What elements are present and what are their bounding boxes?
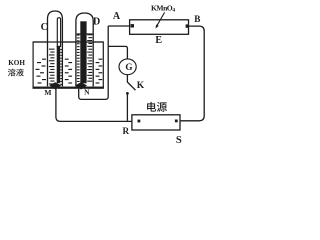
terminal plug right in E — [186, 24, 189, 27]
galvanometer G — [119, 59, 136, 75]
svg-text:N: N — [84, 88, 90, 97]
electrode terminal M (diamond) — [49, 82, 61, 89]
tube E with KMnO4 — [130, 20, 189, 35]
svg-text:C: C — [41, 22, 48, 33]
switch K contact dot — [126, 92, 129, 95]
KOH solution hatching in beaker — [36, 59, 103, 84]
gas tube D — [76, 13, 93, 86]
terminal dot right — [175, 120, 178, 123]
electrode terminal N (diamond) — [75, 82, 87, 89]
power supply box — [132, 115, 180, 130]
terminal dot left — [138, 120, 141, 123]
svg-text:E: E — [155, 35, 162, 46]
liquid in tube C — [49, 49, 62, 85]
liquid in tube D — [77, 34, 92, 82]
beaker rim waterline — [33, 41, 103, 42]
switch K blade — [127, 82, 135, 90]
gas tube C — [48, 11, 63, 86]
svg-text:KOH: KOH — [8, 59, 25, 67]
electrode rod in tube C — [57, 18, 60, 47]
wire node A to tube E left — [108, 25, 129, 27]
electrode rod in tube D — [80, 21, 86, 83]
liquid surface line in tube D — [77, 33, 93, 34]
svg-text:M: M — [44, 88, 51, 97]
branch wire to galvanometer G — [108, 46, 127, 58]
wire from M to bottom rail — [56, 89, 132, 122]
beaker bottom — [33, 87, 104, 89]
label 电源 (power supply) — [147, 102, 167, 112]
wire switch to bottom rail — [126, 95, 128, 121]
svg-text:B: B — [194, 14, 200, 24]
svg-text:D: D — [93, 17, 100, 28]
svg-text:KMnO4: KMnO4 — [151, 3, 175, 13]
wire G to switch — [126, 75, 128, 83]
pointer arrow from KMnO4 label to tube — [157, 12, 164, 25]
svg-text:K: K — [137, 81, 145, 91]
beaker vessel — [33, 42, 103, 87]
svg-text:A: A — [113, 11, 121, 22]
svg-text:R: R — [122, 126, 129, 136]
svg-text:S: S — [176, 135, 182, 146]
label 溶液 (solution) — [8, 69, 24, 77]
wire from N up-right to node under A — [79, 26, 109, 99]
svg-text:G: G — [125, 62, 132, 72]
wire tube E right to power supply right — [181, 26, 205, 121]
terminal plug left in E — [131, 24, 134, 27]
